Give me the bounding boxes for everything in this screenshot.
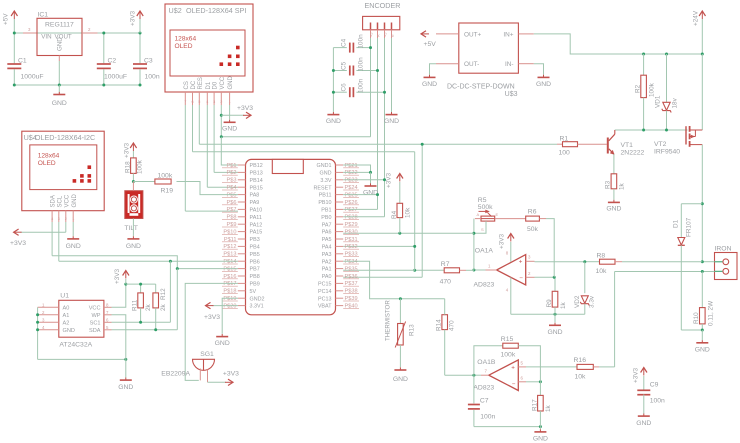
svg-text:C2: C2: [108, 58, 117, 65]
wire U1 address pins to gnd: [37, 307, 39, 359]
svg-text:SDA: SDA: [89, 328, 101, 334]
svg-text:AD823: AD823: [474, 282, 495, 289]
wire OA1A plus input line: [535, 261, 585, 263]
MCU pin P$38: [336, 290, 344, 292]
svg-text:GND: GND: [363, 190, 378, 197]
svg-text:OA1B: OA1B: [477, 359, 496, 366]
ground symbol under IC1: [58, 85, 60, 92]
wire 24V down to VT2 source: [701, 54, 703, 130]
ground symbol thermistor: [399, 367, 401, 370]
power flag +3V3 regulator output: [139, 12, 141, 19]
svg-text:GND: GND: [547, 329, 562, 336]
svg-text:VIN: VIN: [41, 34, 51, 41]
svg-text:PA11: PA11: [250, 215, 262, 221]
svg-text:5V: 5V: [250, 289, 257, 295]
svg-text:PB9: PB9: [250, 282, 260, 288]
ground symbol OLED SPI: [229, 120, 231, 123]
OA1B output pin 7: [481, 374, 489, 376]
svg-text:3.3V1: 3.3V1: [250, 304, 264, 310]
svg-text:C1: C1: [18, 58, 27, 65]
svg-text:PB7: PB7: [250, 267, 260, 273]
svg-text:TILT: TILT: [124, 225, 137, 232]
svg-text:PA10: PA10: [250, 208, 263, 214]
svg-text:VD2: VD2: [574, 295, 581, 308]
svg-text:R16: R16: [574, 357, 587, 364]
svg-text:128x64: 128x64: [175, 36, 197, 43]
svg-text:PC14: PC14: [318, 289, 332, 295]
diode D1 FR107: [680, 204, 682, 238]
svg-text:4: 4: [506, 288, 509, 293]
svg-text:SG1: SG1: [200, 351, 214, 358]
svg-text:PB5: PB5: [250, 252, 260, 258]
svg-text:100n: 100n: [358, 78, 365, 93]
svg-text:OA1A: OA1A: [475, 248, 494, 255]
svg-text:R19: R19: [161, 188, 174, 195]
ground symbol R9: [554, 314, 556, 322]
capacitor C4 100n: [333, 47, 346, 49]
svg-text:VT2: VT2: [654, 141, 667, 148]
U1 left pin stubs: [38, 306, 59, 308]
junction dots 24V rail: [642, 53, 645, 56]
MCU pin P$24: [336, 186, 344, 188]
wire R6 right down to inverting node: [539, 218, 546, 220]
svg-text:PB0: PB0: [321, 215, 331, 221]
svg-text:470: 470: [449, 320, 456, 331]
svg-text:6: 6: [192, 100, 194, 104]
svg-text:REG1117: REG1117: [45, 22, 74, 29]
resistor R8 10k: [585, 261, 600, 263]
svg-text:R12: R12: [160, 288, 167, 300]
svg-text:100k: 100k: [501, 352, 516, 359]
svg-text:100n: 100n: [358, 34, 365, 49]
module MCU STM32 blue pill: [246, 159, 336, 314]
svg-text:R2: R2: [635, 84, 642, 93]
wire P$36 line: [343, 276, 422, 278]
svg-text:B: B: [390, 34, 394, 37]
svg-text:RESET: RESET: [314, 185, 333, 191]
svg-text:+: +: [511, 365, 515, 372]
tilt sensor TILT: [125, 191, 143, 219]
MCU pin P$17: [238, 282, 246, 284]
svg-text:3: 3: [28, 27, 31, 32]
svg-text:3: 3: [58, 217, 60, 221]
MCU pin P$4: [238, 186, 246, 188]
wire R16 right vertical to iron pin2: [614, 272, 616, 367]
svg-text:C5: C5: [341, 61, 348, 70]
svg-text:+3V3: +3V3: [237, 105, 253, 112]
svg-text:EB2209A: EB2209A: [161, 371, 190, 378]
module U$2 OLED-128X64 SPI: [165, 4, 253, 92]
wire VT2 drain down: [701, 145, 703, 262]
MCU pin P$35: [336, 268, 344, 270]
ground symbol R10: [701, 330, 703, 340]
MCU pin P$39: [336, 297, 344, 299]
wire SDA vertical to U1: [176, 269, 178, 330]
wire TILT to gnd: [132, 182, 134, 191]
svg-text:A1: A1: [63, 313, 70, 319]
svg-text:A: A: [477, 212, 480, 217]
svg-text:+3V3: +3V3: [204, 314, 220, 321]
MCU pin P$6: [238, 201, 246, 203]
svg-text:VT1: VT1: [621, 142, 634, 149]
OA1A output pin 1: [486, 269, 497, 271]
svg-text:1: 1: [229, 100, 231, 104]
wire OA1A inverting to R6/R9 node: [535, 276, 555, 278]
svg-text:R10: R10: [693, 312, 700, 324]
power flag +3V3 at R18: [132, 144, 134, 151]
resistor R7 470: [415, 269, 445, 271]
svg-text:PA6: PA6: [322, 230, 332, 236]
junction dots encoder caps: [332, 69, 335, 72]
svg-text:−: −: [512, 381, 516, 388]
eeprom U1 AT24C32A: [59, 300, 104, 337]
MCU pin P$2: [238, 171, 246, 173]
wire iron pin2 net: [615, 271, 715, 273]
transistor VT1 2N2222: [607, 138, 609, 154]
MCU pin P$37: [336, 282, 344, 284]
wire OLED D0 down: [213, 105, 215, 172]
svg-text:8: 8: [506, 251, 509, 256]
resistor R6 50k: [526, 216, 540, 221]
OLED pixel dots U$2: [236, 46, 240, 50]
svg-text:AD823: AD823: [473, 385, 494, 392]
resistor R9 1k: [554, 277, 556, 291]
MCU pin P$3: [238, 179, 246, 181]
svg-text:6: 6: [521, 376, 524, 381]
U$2 pin stubs: [184, 92, 186, 105]
op-amp OA1B AD823: [489, 360, 519, 391]
svg-text:R13: R13: [409, 324, 416, 336]
svg-text:DC-DC-STEP-DOWN: DC-DC-STEP-DOWN: [447, 84, 515, 91]
ground symbol P$21/P$22: [370, 172, 372, 183]
OA1B pin 5 non-inverting: [518, 366, 526, 368]
wire iron pin1 net: [702, 261, 714, 263]
svg-text:+3V3: +3V3: [499, 233, 506, 249]
ground symbol encoder right: [391, 112, 393, 115]
wire P$34 to thermistor line: [343, 261, 445, 299]
OA1A V- pin 4: [510, 278, 512, 315]
svg-text:PB4: PB4: [250, 245, 260, 251]
OA1A pin 3 non-inverting: [526, 260, 535, 262]
svg-text:128x64: 128x64: [38, 152, 60, 159]
wire OA1B inverting to R17 node: [526, 381, 540, 383]
svg-text:SC1: SC1: [90, 320, 101, 326]
IC1 pin 3 stub: [23, 32, 37, 34]
svg-text:PB14: PB14: [250, 178, 263, 184]
svg-text:PB6: PB6: [250, 259, 260, 265]
svg-text:D1: D1: [673, 219, 680, 228]
wire OA1A output to node: [474, 269, 486, 271]
svg-text:10k: 10k: [596, 268, 608, 275]
svg-text:PA5: PA5: [322, 237, 332, 243]
power flag +5V: [13, 12, 15, 19]
svg-text:4: 4: [206, 100, 208, 104]
svg-text:PB8: PB8: [250, 274, 260, 280]
wire encoder pin4 B down: [391, 38, 393, 112]
svg-text:100n: 100n: [145, 74, 160, 81]
svg-text:10k: 10k: [575, 374, 587, 381]
wire C7 bottom to gnd node: [474, 426, 541, 428]
svg-text:R3: R3: [605, 180, 612, 189]
svg-text:PA4: PA4: [322, 245, 332, 251]
wire P$17 to buzzer: [185, 283, 238, 380]
ground symbol P$19: [221, 334, 223, 337]
svg-text:GND: GND: [536, 81, 551, 88]
svg-text:PA9: PA9: [250, 200, 260, 206]
MCU pin P$11: [238, 238, 246, 240]
svg-text:R8: R8: [597, 253, 606, 260]
svg-text:VD1: VD1: [655, 95, 662, 108]
svg-text:GND: GND: [66, 243, 81, 250]
svg-text:S: S: [481, 227, 484, 232]
wire OLED RES down: [198, 105, 200, 144]
svg-text:PA8: PA8: [250, 193, 260, 199]
svg-text:PA3: PA3: [322, 252, 332, 258]
wire SDA line corner to P$15: [52, 256, 238, 269]
MCU pin P$7: [238, 208, 246, 210]
capacitor C5 100n: [333, 70, 346, 72]
svg-text:1: 1: [72, 217, 74, 221]
junction tilt node: [132, 180, 135, 183]
svg-text:PB11: PB11: [319, 193, 332, 199]
svg-text:IRF9540: IRF9540: [654, 149, 680, 156]
U1 right pin stubs: [104, 306, 112, 308]
svg-text:100n: 100n: [358, 57, 365, 72]
svg-text:GND2: GND2: [250, 296, 265, 302]
svg-text:GND: GND: [57, 37, 64, 51]
svg-text:PB1: PB1: [321, 208, 331, 214]
svg-text:PB15: PB15: [250, 185, 263, 191]
svg-text:18v: 18v: [672, 97, 679, 108]
ground symbol TILT: [132, 236, 134, 239]
svg-text:GND1: GND1: [317, 163, 332, 169]
svg-text:0.11, 2W: 0.11, 2W: [708, 300, 715, 326]
resistor R16 10k: [577, 364, 593, 369]
MCU pin P$10: [238, 231, 246, 233]
wire P$25 to encoder A rail: [343, 194, 377, 196]
voltage regulator IC1 REG1117: [37, 18, 82, 55]
wire U1 WP down: [112, 315, 126, 360]
svg-text:3: 3: [213, 100, 215, 104]
power flag +3V3 at OLED VCC: [221, 114, 244, 116]
MCU pin P$34: [336, 260, 344, 262]
wire +3V3 branch to P$1: [220, 135, 223, 138]
svg-text:50k: 50k: [527, 226, 539, 233]
svg-text:THERMISTOR: THERMISTOR: [385, 300, 392, 341]
wire SCL line to P$14: [59, 260, 238, 262]
svg-text:GND: GND: [118, 384, 133, 391]
svg-text:WP: WP: [91, 313, 100, 319]
wire VD2 bottom to gnd net: [511, 313, 585, 315]
wire net +3V3 line to encoder: [221, 136, 370, 138]
MCU pin P$25: [336, 194, 344, 196]
module U$4 OLED-128X64-I2C: [22, 131, 104, 211]
resistor R17 1k: [539, 382, 541, 396]
svg-text:U1: U1: [60, 293, 69, 300]
wire OLED VCC down: [220, 105, 222, 137]
svg-text:GND: GND: [126, 243, 141, 250]
svg-text:FR107: FR107: [686, 217, 693, 237]
wire P$28 encoder B: [343, 216, 384, 218]
resistor R3 1k: [611, 174, 617, 189]
svg-text:+24V: +24V: [693, 10, 700, 26]
svg-text:R1: R1: [560, 136, 569, 143]
MCU pin P$40: [336, 305, 344, 307]
MCU pin P$29: [336, 223, 344, 225]
wire OLED CS to P$7: [185, 210, 238, 212]
wire VT1 collector to VT2 gate: [615, 129, 688, 131]
MCU pin P$14: [238, 260, 246, 262]
svg-text:D1: D1: [206, 81, 212, 89]
svg-text:OLED: OLED: [38, 160, 56, 167]
svg-text:+3V3: +3V3: [130, 10, 137, 26]
svg-text:100k: 100k: [649, 82, 656, 97]
resistor R19 100k: [133, 181, 155, 183]
svg-text:A2: A2: [63, 320, 70, 326]
svg-text:PA2: PA2: [322, 259, 332, 265]
R5 to R6 wire: [495, 218, 526, 220]
svg-text:C9: C9: [650, 382, 659, 389]
svg-text:1000uF: 1000uF: [104, 74, 127, 81]
svg-text:+5V: +5V: [424, 41, 437, 48]
svg-text:GND: GND: [422, 81, 437, 88]
svg-text:+5: +5: [369, 33, 373, 37]
U$3 OUT- pin stub: [436, 63, 459, 65]
wire P$32 line: [343, 245, 415, 247]
U$3 IN+ pin stub: [518, 33, 533, 35]
capacitor C7 100n: [473, 375, 475, 403]
MCU pin P$32: [336, 245, 344, 247]
resistor R14 470: [442, 315, 448, 330]
MCU pin P$22: [336, 171, 344, 173]
svg-text:R9: R9: [546, 299, 553, 308]
wire encoder pin2 A down: [377, 38, 379, 209]
MCU pin P$18: [238, 290, 246, 292]
module U$3 DC-DC-STEP-DOWN: [459, 23, 519, 73]
ground symbol R17: [539, 427, 541, 430]
wire P$35 line: [343, 269, 415, 271]
power flag +3V3 at U$4: [14, 231, 22, 233]
MCU pin P$27: [336, 208, 344, 210]
svg-text:+: +: [519, 259, 523, 266]
svg-text:PC15: PC15: [318, 282, 332, 288]
OA1B pin 6 inverting: [518, 381, 526, 383]
svg-text:R6: R6: [528, 209, 537, 216]
MCU pin P$1: [238, 164, 246, 166]
OLED pixel dots U$4: [88, 165, 92, 169]
svg-text:GND: GND: [326, 118, 341, 125]
svg-text:+3V3: +3V3: [124, 142, 131, 158]
MCU pin P$30: [336, 231, 344, 233]
wire U1 VCC to +3V3: [112, 284, 126, 307]
svg-text:+3V3: +3V3: [633, 367, 640, 383]
wire D1 branch top: [681, 203, 702, 205]
wire OA1B output node: [474, 374, 481, 376]
svg-text:10k: 10k: [405, 207, 412, 218]
svg-text:IN-: IN-: [505, 61, 514, 68]
svg-text:PA0: PA0: [322, 274, 332, 280]
svg-text:VCC: VCC: [220, 76, 226, 89]
wire P$22 GND: [343, 171, 370, 173]
svg-text:GND: GND: [384, 118, 399, 125]
ground symbol U$3 right: [543, 75, 545, 78]
transistor VT2 IRF9540 p-mosfet: [685, 126, 687, 144]
svg-text:7: 7: [184, 100, 186, 104]
svg-text:R15: R15: [501, 336, 514, 343]
svg-text:4: 4: [42, 325, 45, 330]
wire bottom gnd rail: [14, 84, 140, 86]
wire U1 SDA line: [112, 329, 178, 331]
MCU pin P$8: [238, 216, 246, 218]
svg-text:GND: GND: [636, 420, 651, 427]
power flag +3V3 at U1: [125, 272, 127, 279]
resistor R18 100k: [131, 158, 137, 174]
junction VCC 3V3 branch: [220, 114, 223, 117]
svg-text:+3V3: +3V3: [223, 371, 239, 378]
power flag +5V at DC-DC output: [421, 33, 429, 35]
wire OLED GND pin: [229, 105, 231, 120]
svg-text:470: 470: [440, 279, 452, 286]
junction dots on gnd rail: [13, 84, 16, 87]
svg-text:C4: C4: [341, 38, 348, 47]
svg-text:GND: GND: [52, 100, 67, 107]
U$3 OUT+ pin stub: [436, 33, 459, 35]
svg-text:C7: C7: [480, 398, 489, 405]
svg-text:R17: R17: [531, 399, 538, 411]
svg-text:2: 2: [42, 310, 45, 315]
svg-text:2N2222: 2N2222: [621, 150, 645, 157]
capacitor C9 100n: [643, 369, 645, 376]
svg-text:DC: DC: [191, 80, 197, 89]
capacitor C2 1000uF: [103, 33, 105, 63]
resistor R2 100k: [643, 54, 645, 75]
wire RES net vertical: [421, 144, 423, 277]
svg-text:1k: 1k: [545, 404, 552, 412]
svg-text:RES: RES: [198, 77, 204, 89]
svg-text:2: 2: [65, 217, 67, 221]
capacitor C1 1000uF: [13, 33, 15, 63]
svg-text:GND: GND: [72, 194, 78, 208]
svg-text:PB12: PB12: [250, 163, 263, 169]
svg-text:1k: 1k: [560, 301, 567, 309]
svg-text:2: 2: [88, 27, 91, 32]
ground symbol R3: [613, 200, 615, 203]
OA1A pin 2 inverting: [526, 276, 535, 278]
svg-text:2: 2: [528, 271, 531, 276]
svg-text:GND: GND: [695, 347, 710, 354]
svg-text:3.3V: 3.3V: [320, 178, 331, 184]
svg-text:100: 100: [559, 150, 571, 157]
wire U$4 GND pin: [72, 222, 74, 236]
wire encoder caps left rail: [332, 48, 334, 112]
wire +5V to rail: [13, 19, 15, 33]
svg-text:3.3v: 3.3v: [589, 295, 596, 308]
svg-text:GND: GND: [393, 376, 408, 383]
svg-text:R4: R4: [391, 210, 398, 219]
MCU pin P$9: [238, 223, 246, 225]
ground symbol U$4: [72, 236, 74, 239]
svg-text:GND: GND: [606, 206, 621, 213]
wire IN+ to 24V rail: [534, 34, 703, 54]
wire net DC long line: [193, 151, 415, 153]
MCU pin P$23: [336, 179, 344, 181]
svg-text:A0: A0: [63, 305, 70, 311]
svg-text:PB3: PB3: [250, 237, 260, 243]
wire DC net vertical: [414, 152, 416, 271]
zener diode VD2 3.3v: [584, 262, 586, 294]
svg-text:3: 3: [528, 255, 531, 260]
wire U1 gnd rail: [38, 358, 126, 360]
